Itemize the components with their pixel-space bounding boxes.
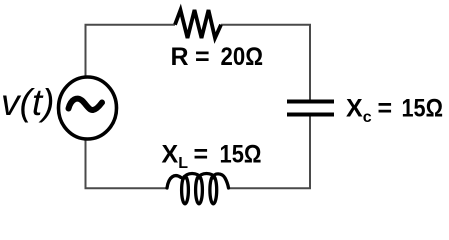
svg-text:v(t): v(t) xyxy=(1,82,54,123)
wire: bottom-left segment + left side lower xyxy=(86,107,168,188)
wire: right side lower + bottom-right segment xyxy=(229,116,310,188)
svg-text:XL=15Ω: XL=15Ω xyxy=(162,141,262,173)
wire: left side + top-left segment xyxy=(86,25,176,107)
capacitor Xc bottom plate xyxy=(287,113,334,117)
voltage source sine symbol xyxy=(69,99,103,110)
svg-text:Xc=15Ω: Xc=15Ω xyxy=(346,95,443,127)
inductor XL lead-out arc xyxy=(213,174,229,188)
wire: top-right segment + right side upper xyxy=(221,25,310,100)
inductor XL coil loop 2 xyxy=(196,176,203,204)
capacitor Xc top plate xyxy=(287,100,334,104)
inductor XL hump arc 2-3 xyxy=(199,173,215,178)
svg-text:R=20Ω: R=20Ω xyxy=(171,43,264,71)
inductor XL lead-in arc xyxy=(167,176,181,188)
inductor XL coil loop 3 xyxy=(210,176,217,204)
inductor XL hump arc 1-2 xyxy=(185,173,201,178)
resistor R zigzag xyxy=(175,10,221,38)
voltage source circle xyxy=(59,77,117,139)
inductor XL coil loop 1 xyxy=(182,176,189,204)
